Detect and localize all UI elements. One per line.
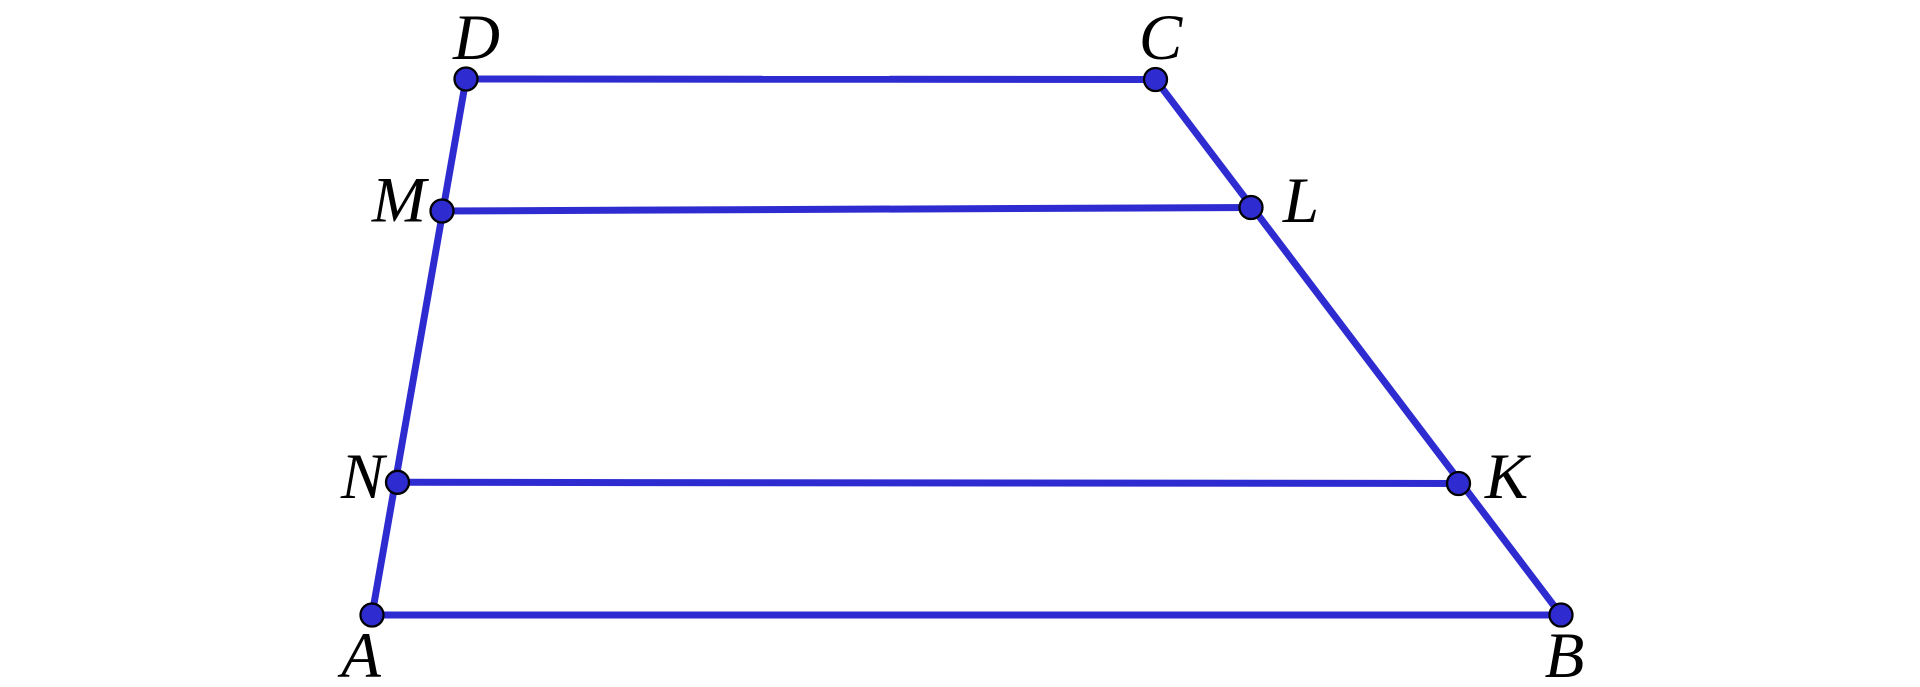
- node C: [1144, 68, 1167, 91]
- node A: [361, 604, 384, 627]
- wire ML (upper parallel segment): [442, 208, 1251, 212]
- wire AB (bottom side of trapezoid): [372, 612, 1561, 619]
- wire AD (left side of trapezoid through N and M): [372, 79, 466, 615]
- wire DC (top side of trapezoid): [466, 76, 1156, 84]
- svg-text:C: C: [1139, 2, 1183, 74]
- node B: [1550, 604, 1573, 627]
- svg-text:L: L: [1282, 165, 1319, 237]
- node D: [455, 68, 478, 91]
- wire BC (right side of trapezoid through K and L): [1156, 80, 1562, 616]
- wire NK (lower parallel segment): [398, 482, 1459, 483]
- svg-text:K: K: [1484, 441, 1532, 513]
- node M: [431, 200, 454, 223]
- node K: [1447, 472, 1470, 495]
- svg-text:M: M: [371, 165, 430, 237]
- svg-text:D: D: [452, 2, 500, 74]
- svg-text:B: B: [1545, 620, 1585, 687]
- svg-text:A: A: [337, 620, 381, 687]
- node N: [386, 471, 409, 494]
- svg-text:N: N: [340, 441, 388, 513]
- node L: [1240, 196, 1263, 219]
